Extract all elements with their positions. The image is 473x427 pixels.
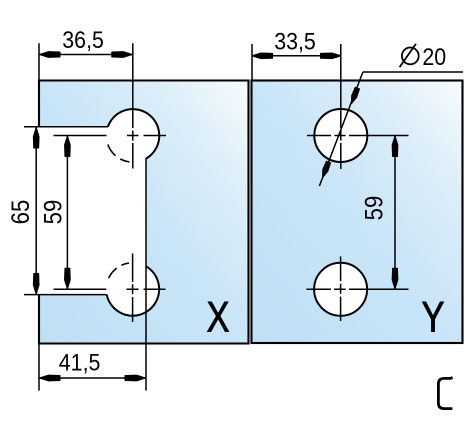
hole H3 white — [314, 109, 367, 162]
plate X outline — [39, 81, 249, 344]
dim 41,5 text — [59, 348, 101, 376]
hole H2 white — [106, 263, 159, 316]
dim 41,5 arrow left — [40, 375, 61, 381]
hole H1 centerline vertical — [132, 43, 134, 168]
dim 59 left line — [66, 136, 68, 290]
svg-text:65: 65 — [8, 200, 36, 225]
leader diagonal — [319, 72, 363, 186]
svg-text:36,5: 36,5 — [62, 26, 104, 54]
dim 59 left text — [40, 200, 68, 225]
dim 36,5 arrow right — [112, 52, 133, 58]
svg-text:33,5: 33,5 — [274, 27, 316, 55]
svg-text:20: 20 — [422, 43, 446, 71]
hole H1 phantom arc b — [108, 145, 116, 156]
slot cutout white — [36, 127, 146, 295]
dim 33,5 text — [274, 27, 316, 55]
hole H2 centerline horizontal — [54, 288, 166, 290]
dim 59 right text — [361, 196, 389, 221]
dim 59 left arrow bottom — [65, 268, 71, 289]
dim 41,5 arrow right — [125, 375, 146, 381]
dim 36,5 line — [39, 54, 133, 56]
plate Y body fill — [252, 81, 463, 344]
dim 59 right arrow top — [392, 136, 398, 157]
hole H1 white — [106, 109, 159, 162]
leader underline for dia 20 — [363, 71, 463, 73]
dim 41,5 ext left — [38, 344, 40, 391]
svg-text:59: 59 — [361, 196, 389, 221]
dim 36,5 text — [62, 26, 104, 54]
hole H4 white — [314, 263, 367, 316]
hole H4 centerline horizontal — [306, 288, 408, 290]
slot top edge / ext line 65 — [24, 126, 108, 128]
hole H1 solid arc — [108, 109, 159, 158]
dim 59 left arrow top — [65, 136, 71, 157]
dim 33,5 arrow left — [252, 53, 273, 59]
hole H3 centerline horizontal — [307, 135, 409, 137]
dim 65 text — [8, 200, 36, 225]
leader arrow upper — [352, 87, 360, 103]
hole H2 phantom arc b — [121, 263, 128, 265]
dim 41,5 line — [39, 377, 146, 379]
hole H2 solid arc — [107, 266, 159, 315]
hole H2 phantom arc a — [109, 268, 117, 278]
label C — [438, 378, 452, 409]
hole H3 circle — [314, 109, 367, 162]
hole H4 centerline vertical — [340, 256, 342, 321]
dim 33,5 arrow right — [321, 53, 342, 59]
svg-text:Y: Y — [422, 294, 445, 341]
dim 36,5 arrow left — [40, 52, 61, 58]
slot bottom edge / ext line 65 — [24, 294, 107, 296]
label Y — [422, 294, 445, 341]
plate Y outline — [252, 81, 463, 344]
dim 65 arrow top — [33, 128, 39, 149]
plate X body fill — [39, 81, 249, 344]
leader arrow lower — [323, 161, 331, 177]
hole H1 centerline horizontal — [54, 135, 167, 137]
hole H1 phantom arc a — [120, 159, 129, 162]
hole H3 centerline vertical — [340, 44, 342, 169]
slot right edge / ext line 41,5 — [145, 158, 147, 390]
dim 59 right arrow bottom — [392, 268, 398, 289]
dim 33,5 ext left — [251, 44, 253, 81]
svg-text:X: X — [207, 294, 230, 341]
hole H2 centerline vertical — [132, 254, 134, 323]
dim 59 right line — [394, 136, 396, 290]
svg-text:59: 59 — [40, 200, 68, 225]
label X — [207, 294, 230, 341]
dim 65 arrow bottom — [33, 274, 39, 295]
hole H4 circle — [314, 263, 367, 316]
diameter symbol — [400, 44, 419, 67]
dim 36,5 ext left — [38, 43, 40, 80]
dia 20 text — [422, 43, 446, 71]
dim 65 line — [35, 127, 37, 295]
svg-text:41,5: 41,5 — [59, 348, 101, 376]
dim 33,5 line — [252, 55, 342, 57]
